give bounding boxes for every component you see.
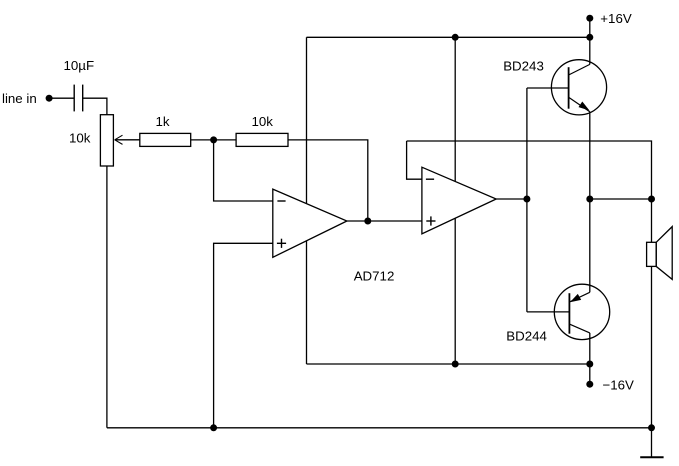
wire U1b output to base node: [496, 198, 527, 200]
svg-text:−16V: −16V: [603, 378, 635, 393]
wire non-inverting input to ground riser: [214, 243, 273, 427]
wire U1a output: [347, 220, 422, 222]
node -16V terminal: [586, 364, 634, 393]
svg-text:10µF: 10µF: [64, 58, 95, 73]
wire V- pin U1a riser: [306, 241, 308, 364]
node top rail riser2 junction: [452, 34, 459, 41]
node bottom rail right junction: [586, 361, 593, 368]
svg-text:AD712: AD712: [354, 269, 395, 284]
wire top +16V rail: [307, 36, 590, 38]
resistor R3 10k feedback: [236, 114, 288, 146]
ground: [640, 456, 663, 458]
wire 10k to feedback drop: [288, 140, 368, 221]
svg-text:BD244: BD244: [506, 329, 547, 344]
svg-text:10k: 10k: [69, 130, 91, 145]
speaker LS1: [647, 199, 673, 457]
svg-text:10k: 10k: [252, 114, 274, 129]
wire V- pin U1b riser: [454, 218, 456, 364]
wiper arrow of potentiometer: [115, 135, 140, 144]
svg-text:BD243: BD243: [503, 58, 544, 73]
node top rail right junction: [586, 34, 593, 41]
node emitters junction: [586, 196, 593, 203]
op-amp U1a triangle: [273, 189, 347, 257]
svg-text:line in: line in: [2, 91, 37, 106]
node output2 junction: [523, 196, 530, 203]
node ground wire junction left: [210, 424, 217, 431]
resistor R2 1k: [140, 114, 191, 146]
potentiometer R1 10k: [69, 115, 113, 166]
wire emitters node to speaker node: [590, 198, 652, 200]
wire junction A down to inverting input: [214, 140, 273, 201]
wire base column: [526, 88, 528, 312]
node output1 junction: [364, 218, 371, 225]
wire line-in to C1: [52, 97, 74, 99]
wire V+ pin U1b riser: [454, 37, 456, 181]
wire C1 to pot top: [83, 98, 107, 115]
wire feedback from speaker node: [407, 141, 652, 199]
wire potentiometer bottom drop: [106, 166, 108, 428]
capacitor C1 10uF: [64, 58, 95, 111]
wire bottom -16V rail: [307, 363, 590, 365]
wire bottom ground return: [107, 427, 652, 429]
svg-text:+16V: +16V: [600, 11, 632, 26]
wire 1k to 10k with junction: [191, 139, 236, 141]
svg-text:1k: 1k: [156, 114, 170, 129]
wire U1b inverting input riser: [407, 141, 422, 179]
node junction A: [210, 136, 217, 143]
node ground wire junction right: [648, 424, 655, 431]
wire V+ pin U1a riser: [306, 37, 308, 203]
node +16V terminal: [586, 11, 632, 37]
op-amp U1b triangle: [422, 167, 496, 234]
node speaker junction: [648, 196, 655, 203]
node line-in terminal: [2, 91, 53, 106]
node bottom rail riser2 junction: [452, 361, 459, 368]
transistor Q1 BD243: [503, 37, 606, 199]
transistor Q2 BD244: [506, 199, 609, 364]
